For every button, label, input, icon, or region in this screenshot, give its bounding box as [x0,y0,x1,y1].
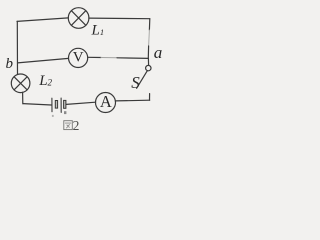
wire middle right to node a [117,57,149,60]
switch lever [137,71,148,89]
wire middle left (node b to voltmeter) [18,58,69,63]
ammeter A [96,93,116,113]
wire middle right (voltmeter to a) [88,56,101,58]
battery cell2 short plate [64,100,66,108]
wire right vertical (upper) [148,19,150,30]
svg-text:b: b [6,56,14,72]
svg-text:S: S [131,73,140,92]
caption figure glyph (tu) [64,121,73,130]
switch S stub from node a [147,58,149,65]
wire left vertical [16,21,18,74]
battery cell2 long plate [60,98,62,112]
wire lamp L2 bottom stub [22,92,24,104]
lamp L1 [68,8,89,29]
wire ammeter to battery [66,102,95,104]
battery cell1 long plate [51,98,53,112]
wire right vertical (faded middle) [148,30,151,46]
switch lower terminal [149,94,151,101]
battery cell1 short plate [55,101,57,109]
wire bottom-right horizontal [115,99,149,102]
ink speck below battery [64,111,66,114]
svg-text:2: 2 [73,118,80,133]
svg-text:a: a [154,43,163,62]
wire battery to bottom-left corner [23,104,51,105]
svg-text:V: V [73,49,84,65]
lamp L2 [11,74,30,93]
voltmeter V [69,48,88,67]
svg-text:A: A [100,92,112,111]
switch pivot circle [146,65,151,70]
wire top-left horizontal [17,18,68,22]
wire right vertical (lower) [147,46,149,58]
wire top-right horizontal [89,17,150,20]
wire middle right faded part [101,57,117,59]
